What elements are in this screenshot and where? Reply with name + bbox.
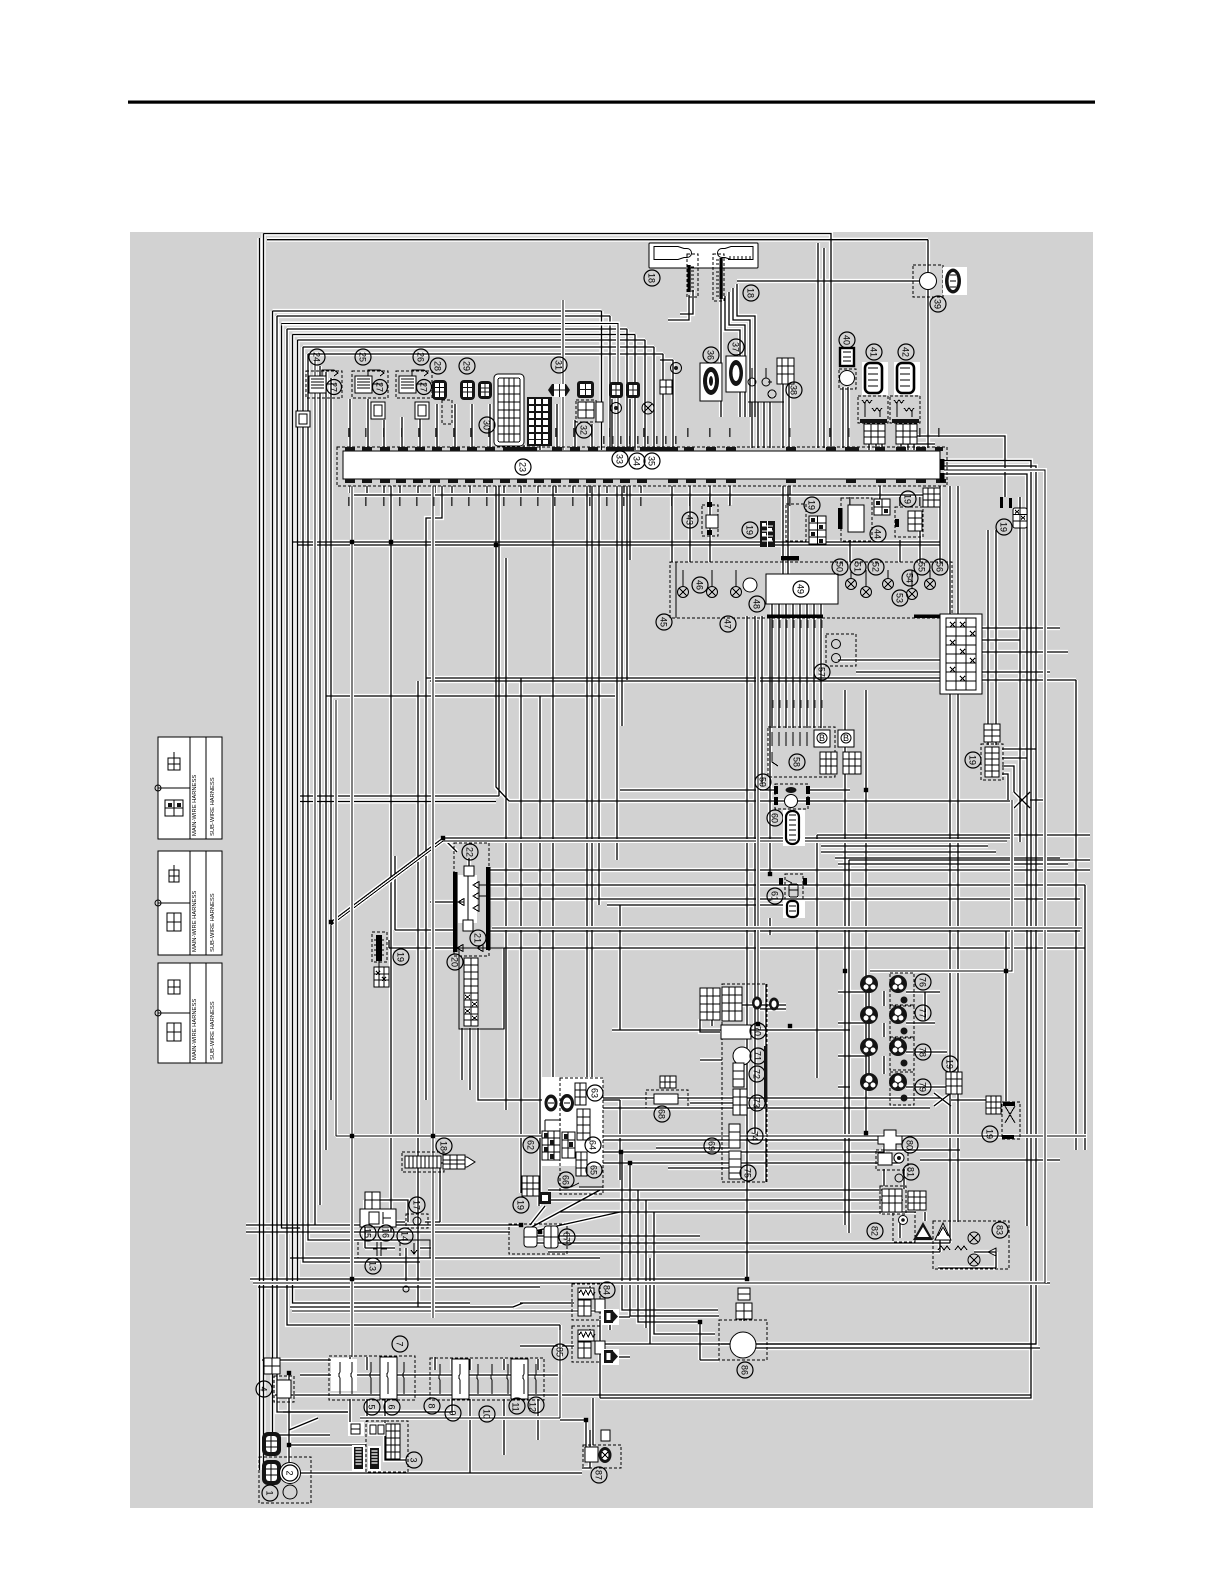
svg-text:41: 41 xyxy=(869,347,879,357)
svg-text:3: 3 xyxy=(409,1457,419,1462)
connector 31 xyxy=(548,357,570,397)
oval connector 28 xyxy=(430,358,452,424)
wire white-core long mid xyxy=(336,700,1086,1136)
svg-text:61: 61 xyxy=(770,891,780,901)
ignition coil 84 xyxy=(572,1282,619,1325)
wire white-core low pair xyxy=(253,470,1045,1283)
svg-text:21: 21 xyxy=(473,933,483,943)
svg-text:15: 15 xyxy=(363,1228,373,1238)
svg-text:19: 19 xyxy=(903,494,913,504)
svg-text:8: 8 xyxy=(427,1403,437,1408)
diagram gray panel xyxy=(130,232,1093,1508)
svg-text:71: 71 xyxy=(753,1051,763,1061)
svg-text:18: 18 xyxy=(647,273,657,283)
resistor 68 xyxy=(646,1076,688,1122)
svg-text:33: 33 xyxy=(615,454,625,464)
svg-text:43: 43 xyxy=(685,515,695,525)
svg-text:87: 87 xyxy=(594,1470,604,1480)
connector 19 lower xyxy=(513,1176,551,1213)
small grid 38b xyxy=(660,380,672,394)
circled 7 xyxy=(392,1336,408,1352)
connector 37 xyxy=(726,339,746,392)
fuse box 18 lower xyxy=(402,1138,475,1172)
svg-text:60: 60 xyxy=(770,813,780,823)
svg-text:65: 65 xyxy=(589,1165,599,1175)
battery 3 xyxy=(348,1421,422,1472)
sidestand 82 xyxy=(867,1212,915,1242)
resistor near 32 xyxy=(596,402,603,422)
svg-text:SUB-WIRE HARNESS: SUB-WIRE HARNESS xyxy=(210,893,216,952)
svg-text:40: 40 xyxy=(842,335,852,345)
svg-text:B: B xyxy=(843,733,849,743)
svg-text:17: 17 xyxy=(412,1200,422,1210)
svg-text:MAIN-WIRE HARNESS: MAIN-WIRE HARNESS xyxy=(192,999,198,1060)
svg-text:72: 72 xyxy=(752,1069,762,1079)
svg-text:84: 84 xyxy=(602,1285,612,1295)
connector 19 left xyxy=(372,932,409,987)
relay 4 xyxy=(256,1358,294,1402)
svg-text:78: 78 xyxy=(918,1047,928,1057)
svg-text:18: 18 xyxy=(439,1141,449,1151)
capacitor 13 / 14 xyxy=(358,1228,430,1292)
connector 36 xyxy=(700,347,722,401)
svg-text:10: 10 xyxy=(482,1409,492,1419)
relay 39 xyxy=(913,265,967,312)
connector 19 right mid xyxy=(965,724,1003,780)
svg-text:63: 63 xyxy=(590,1088,600,1098)
relay 59 60 xyxy=(755,774,810,846)
svg-text:19: 19 xyxy=(985,1129,995,1139)
header rule xyxy=(128,101,1095,104)
svg-text:85: 85 xyxy=(555,1347,565,1357)
junction block 44 xyxy=(781,491,923,561)
connector 40 xyxy=(839,332,856,389)
svg-text:36: 36 xyxy=(706,350,716,360)
junction 81 xyxy=(876,1150,919,1182)
svg-text:27: 27 xyxy=(419,382,429,392)
svg-text:81: 81 xyxy=(906,1167,916,1177)
svg-text:38: 38 xyxy=(789,385,799,395)
svg-text:82: 82 xyxy=(870,1226,880,1236)
svg-text:53: 53 xyxy=(895,593,905,603)
connector 19 far right xyxy=(942,1056,962,1094)
svg-text:29: 29 xyxy=(462,361,472,371)
wire white-core diag 22 xyxy=(331,841,1007,925)
svg-text:57: 57 xyxy=(817,667,827,677)
small connector below 25 xyxy=(371,402,385,419)
svg-text:19: 19 xyxy=(968,755,978,765)
connector 24 xyxy=(306,349,342,398)
svg-text:55: 55 xyxy=(917,562,927,572)
circled 33 34 35 xyxy=(612,451,628,467)
svg-text:27: 27 xyxy=(375,382,385,392)
lean angle sensor 58 xyxy=(768,727,861,777)
svg-text:11: 11 xyxy=(511,1402,521,1411)
wire white-core bottom xyxy=(360,1330,560,1418)
svg-text:67: 67 xyxy=(562,1232,572,1242)
svg-text:9: 9 xyxy=(448,1410,458,1415)
svg-text:59: 59 xyxy=(758,777,768,787)
svg-text:42: 42 xyxy=(901,347,911,357)
svg-text:70: 70 xyxy=(753,1026,763,1036)
svg-text:28: 28 xyxy=(433,361,443,371)
svg-text:B: B xyxy=(819,733,825,743)
relay 42 xyxy=(890,344,920,444)
svg-text:47: 47 xyxy=(723,619,733,629)
svg-text:16: 16 xyxy=(381,1228,391,1238)
svg-text:19: 19 xyxy=(516,1200,526,1210)
wire white-core right column xyxy=(870,800,1012,971)
connector 19a below bus xyxy=(742,521,775,547)
svg-text:4: 4 xyxy=(259,1386,269,1391)
svg-text:19: 19 xyxy=(396,952,406,962)
connectors below 81 xyxy=(880,1186,926,1214)
svg-text:18: 18 xyxy=(746,288,756,298)
svg-text:34: 34 xyxy=(632,456,642,466)
connector 30 big grid xyxy=(479,374,524,446)
horn 86 xyxy=(719,1288,767,1378)
svg-text:31: 31 xyxy=(554,360,564,370)
svg-text:26: 26 xyxy=(416,352,426,362)
legend box 3 xyxy=(155,963,222,1063)
svg-text:86: 86 xyxy=(740,1365,750,1375)
diode block 22 xyxy=(453,843,491,956)
ECU assembly 45-56 xyxy=(656,559,952,632)
cluster 62-66 xyxy=(523,1077,603,1194)
svg-text:76: 76 xyxy=(918,977,928,987)
connector 38 xyxy=(768,358,802,398)
meter assembly 69-75 xyxy=(700,984,779,1182)
svg-text:56: 56 xyxy=(935,562,945,572)
connector pair 32 xyxy=(576,381,596,438)
svg-text:22: 22 xyxy=(465,847,475,857)
svg-text:54: 54 xyxy=(905,573,915,583)
svg-text:51: 51 xyxy=(853,562,863,572)
connector 25 xyxy=(352,349,388,398)
small connector below 26 xyxy=(415,402,429,419)
svg-text:62: 62 xyxy=(526,1140,536,1150)
svg-text:24: 24 xyxy=(312,352,322,362)
svg-text:69: 69 xyxy=(707,1141,717,1151)
ignition coil 85 xyxy=(552,1326,619,1365)
svg-text:2: 2 xyxy=(285,1470,295,1475)
fuses 5 6 xyxy=(329,1356,415,1415)
svg-text:19: 19 xyxy=(807,500,817,510)
svg-text:45: 45 xyxy=(659,617,669,627)
switch 15 16 xyxy=(360,1192,396,1241)
main bus bar 23 xyxy=(337,447,947,486)
svg-text:79: 79 xyxy=(918,1082,928,1092)
svg-text:66: 66 xyxy=(561,1175,571,1185)
svg-text:19: 19 xyxy=(945,1059,955,1069)
switch 61 xyxy=(767,874,807,918)
svg-text:14: 14 xyxy=(400,1231,410,1241)
svg-text:32: 32 xyxy=(579,425,589,435)
svg-text:7: 7 xyxy=(395,1341,405,1346)
svg-text:75: 75 xyxy=(743,1168,753,1178)
svg-text:52: 52 xyxy=(871,562,881,572)
svg-text:5: 5 xyxy=(367,1404,377,1409)
svg-text:MAIN-WIRE HARNESS: MAIN-WIRE HARNESS xyxy=(192,775,198,836)
headlight 76 xyxy=(860,973,931,1006)
connector 4cell right xyxy=(626,382,640,398)
svg-text:35: 35 xyxy=(647,456,657,466)
svg-text:SUB-WIRE HARNESS: SUB-WIRE HARNESS xyxy=(210,777,216,836)
svg-text:MAIN-WIRE HARNESS: MAIN-WIRE HARNESS xyxy=(192,891,198,952)
svg-text:80: 80 xyxy=(905,1140,915,1150)
fuses 8-12 xyxy=(424,1358,544,1422)
legend box 2 xyxy=(155,851,222,955)
main fuse 18 top xyxy=(644,243,758,286)
connector 19 rear xyxy=(982,1096,1020,1142)
svg-text:13: 13 xyxy=(368,1261,378,1271)
svg-text:30: 30 xyxy=(482,420,492,430)
taillight 83 xyxy=(933,1221,1009,1269)
svg-text:74: 74 xyxy=(750,1131,760,1141)
switches mid 36-37 xyxy=(748,378,756,386)
svg-text:20: 20 xyxy=(450,957,460,967)
turn signals triangles xyxy=(913,1222,933,1240)
headlight 79 xyxy=(860,1072,931,1105)
svg-text:39: 39 xyxy=(933,299,943,309)
headlight 77 xyxy=(860,1005,931,1038)
svg-text:44: 44 xyxy=(873,529,883,539)
svg-text:1: 1 xyxy=(265,1490,275,1495)
rear brake switch 87 xyxy=(583,1430,621,1483)
svg-text:48: 48 xyxy=(752,599,762,609)
wire white-core 21 out xyxy=(492,926,1082,930)
svg-text:73: 73 xyxy=(752,1098,762,1108)
svg-text:19: 19 xyxy=(745,525,755,535)
ECU connector big right xyxy=(940,614,982,694)
svg-text:SUB-WIRE HARNESS: SUB-WIRE HARNESS xyxy=(210,1001,216,1060)
headlight 78 xyxy=(860,1037,931,1070)
fuse strip 18a xyxy=(687,254,759,301)
svg-text:49: 49 xyxy=(796,584,806,594)
oval connector 29 xyxy=(459,358,492,400)
svg-text:23: 23 xyxy=(518,462,528,472)
connector grid right of 30 xyxy=(527,397,552,446)
sensor 80 xyxy=(878,1130,918,1153)
sensor 57 xyxy=(814,634,856,680)
svg-text:64: 64 xyxy=(588,1140,598,1150)
sensor 17 xyxy=(406,1197,428,1228)
svg-text:68: 68 xyxy=(657,1109,667,1119)
connector 26 xyxy=(396,349,432,398)
connector 19 right pair xyxy=(923,459,1027,535)
switch 67 xyxy=(509,1224,575,1254)
wire white-core ecu drop xyxy=(756,620,760,1024)
svg-text:46: 46 xyxy=(695,580,705,590)
starter motor 1 2 xyxy=(259,1432,311,1503)
connector pair right xyxy=(609,382,623,398)
svg-text:83: 83 xyxy=(995,1225,1005,1235)
wire white-core bus drop xyxy=(561,300,565,450)
svg-text:77: 77 xyxy=(918,1008,928,1018)
svg-text:37: 37 xyxy=(731,342,741,352)
small connector below 24 xyxy=(296,411,310,427)
svg-text:58: 58 xyxy=(792,757,802,767)
row below bus: 43 xyxy=(682,502,718,536)
svg-text:19: 19 xyxy=(999,522,1009,532)
svg-text:50: 50 xyxy=(835,562,845,572)
svg-text:27: 27 xyxy=(329,382,339,392)
wire white-core mid verticals xyxy=(350,486,354,1357)
svg-text:12: 12 xyxy=(528,1402,538,1412)
wire white-core top feed xyxy=(282,324,619,1131)
svg-text:6: 6 xyxy=(387,1404,397,1409)
svg-text:25: 25 xyxy=(358,352,368,362)
legend box 1 xyxy=(155,737,222,839)
connector 20 xyxy=(447,948,504,1029)
starter relay 41 xyxy=(858,344,888,444)
